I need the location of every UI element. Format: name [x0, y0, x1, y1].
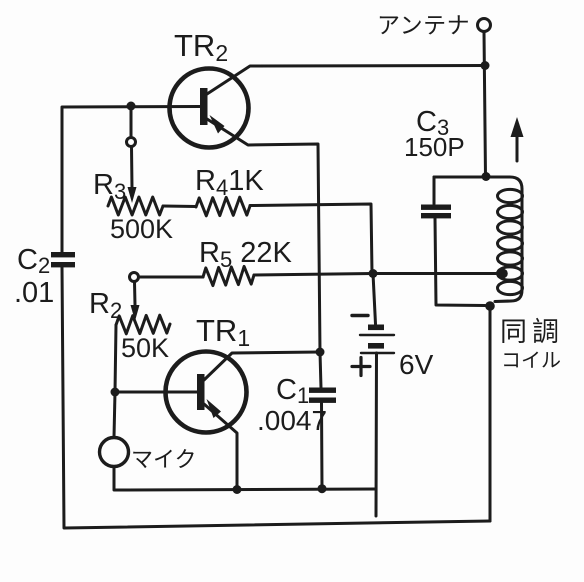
capacitor C3 150P: [421, 205, 451, 219]
microphone MIC: [100, 438, 129, 467]
wire: C3 bottom lead down and right to tank bottom: [435, 218, 485, 306]
wire: R3 wiper arrow shaft: [130, 147, 134, 188]
wire: outer ground rail bottom + left rail up to C2: [62, 267, 490, 528]
resistor R4 1K: [196, 197, 250, 216]
node: junction TR1 emitter / inner rail: [233, 485, 242, 494]
svg-text:.01: .01: [14, 277, 54, 309]
svg-text:C1: C1: [276, 374, 309, 408]
svg-text:.0047: .0047: [257, 405, 327, 436]
wire: base node to TR1 base: [115, 391, 197, 394]
wire: R2 wiper arrow shaft: [133, 282, 137, 305]
arrowhead: R2 wiper pointing to R2 body: [131, 305, 140, 321]
node: junction C1 / inner rail: [318, 484, 327, 493]
svg-text:コイル: コイル: [501, 350, 561, 372]
svg-text:TR2: TR2: [174, 28, 228, 66]
svg-text:50K: 50K: [121, 333, 169, 363]
svg-text:R5 22K: R5 22K: [199, 237, 293, 272]
node A: junction dot base wire / R3 wiper: [127, 102, 136, 111]
svg-text:500K: 500K: [110, 214, 173, 244]
terminal: R3 wiper open circle: [127, 138, 136, 147]
terminal: R2 wiper open circle (left end of R5 wire): [130, 273, 139, 282]
terminal: antenna open circle: [478, 19, 491, 32]
wire: outer left rail top segment (C2 top to top-left corner): [62, 107, 200, 253]
wire: tank bottom down right rail: [489, 306, 492, 521]
wire: antenna down to coil top: [484, 32, 486, 177]
svg-text:R2: R2: [89, 288, 122, 323]
node: coil tap junction: [498, 269, 508, 279]
svg-text:アンテナ: アンテナ: [377, 12, 470, 38]
transistor TR1: [166, 352, 321, 490]
inductor L1 tuning coil body: [495, 189, 523, 302]
battery B1 6V: [360, 274, 394, 517]
battery minus sign: [352, 314, 368, 317]
node: junction TR2 emitter / TR1 collector / C1: [316, 348, 325, 357]
wire: R5 right to coil tap: [254, 274, 500, 276]
wire: tank circuit top bar: [434, 177, 522, 189]
wire: R3 right to R4 left: [163, 205, 196, 209]
arrowhead: R3 wiper pointing to R3 body: [128, 187, 137, 203]
svg-text:TR1: TR1: [196, 313, 250, 351]
svg-text:150P: 150P: [404, 132, 465, 162]
wire: R2 left end down to base node: [115, 325, 116, 392]
svg-text:6V: 6V: [399, 349, 434, 380]
resistor R2 (50K potentiometer body): [116, 315, 170, 334]
wire: C1 bottom to inner rail: [320, 403, 324, 489]
arrow: radiation arrow near coil: [511, 117, 524, 161]
battery plus sign: [352, 358, 370, 376]
capacitor C2 .01: [51, 252, 75, 267]
svg-text:R3: R3: [93, 169, 126, 204]
svg-text:同調: 同調: [500, 317, 564, 347]
wire: base node down to microphone: [114, 392, 115, 437]
wire: C3 top lead: [433, 177, 436, 204]
svg-text:R41K: R41K: [195, 165, 264, 200]
wire: R4 right to corner and down to R5 rail junction: [250, 204, 372, 273]
svg-text:C2: C2: [17, 244, 50, 278]
capacitor C1 .0047: [309, 388, 336, 403]
svg-text:マイク: マイク: [131, 447, 197, 472]
wire: junction down to C1 top plate: [320, 352, 321, 388]
node: junction R2 / TR1 base / mic: [111, 388, 120, 397]
transistor TR2: [170, 66, 487, 353]
node: junction antenna / TR2 collector: [481, 61, 490, 70]
node: tank bottom junction: [485, 301, 495, 311]
wire: mic bottom to inner ground rail: [114, 467, 376, 490]
node: junction antenna line / tank top: [482, 172, 491, 181]
wire: wiper circle to R5 left: [139, 276, 203, 279]
resistor R5 22K: [203, 266, 254, 285]
resistor R3 (500K potentiometer body): [108, 197, 163, 215]
wire: junction down to wiper terminal of R3: [130, 110, 133, 137]
node: junction R4/R5/battery: [369, 269, 378, 278]
